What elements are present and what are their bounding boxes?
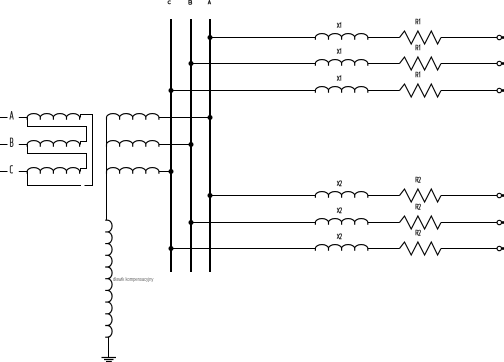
wire A to primary winding [19,117,27,119]
bus A label [208,0,211,4]
svg-text:dławik kompensacyjny: dławik kompensacyjny [113,276,154,283]
bus C label [168,1,171,4]
wire inductor to resistor (branch 1) [368,37,400,39]
wire C to primary winding [19,171,27,173]
junction secondary B on bus B [189,142,194,147]
wire resistor to output terminal (branch 6) [441,248,497,250]
output terminal (branch 4) [497,193,501,197]
wire reactor to ground [108,337,110,358]
terminal A lead wire [0,117,8,119]
junction branch 2 on bus B [189,61,194,66]
wire delta link C-A segment 1 (under winding C) [28,172,82,186]
wire stub to sheet edge (branch 6) [502,247,504,250]
label R1 (branch 1) [416,19,420,24]
output terminal (branch 2) [497,61,501,65]
label R1 (branch 2) [416,45,420,50]
transformer secondary winding B [107,141,159,147]
label R2 (branch 4) [416,177,421,182]
junction branch 5 on bus B [189,220,194,225]
label X1 (branch 1) [337,23,341,28]
bus B label [189,0,192,4]
terminal B lead wire [0,144,8,146]
wire stub to sheet edge (branch 3) [502,89,504,92]
phase label B [10,138,13,146]
transformer primary winding B (delta) [27,141,79,147]
wire secondary B to bus B [159,144,191,146]
wire inductor to resistor (branch 2) [368,63,400,65]
label X2 (branch 4) [337,181,342,186]
wire inductor to resistor (branch 6) [368,248,400,250]
terminal C lead wire [0,171,8,173]
phase label A [10,111,13,119]
neutral wire (secondary star point down to reactor) [106,118,108,221]
wire inductor to resistor (branch 4) [368,195,400,197]
label X2 (branch 5) [337,208,342,213]
junction branch 1 on bus A [208,35,213,40]
wire bus A to inductor X2 (branch 4) [210,195,315,197]
wire stub to sheet edge (branch 2) [502,62,504,65]
wire resistor to output terminal (branch 5) [441,222,497,224]
transformer secondary winding C [107,168,159,174]
junction branch 6 on bus C [169,246,174,251]
resistor R1 (branch 2) [400,57,442,70]
junction branch 3 on bus C [169,88,174,93]
wire stub to sheet edge (branch 5) [502,221,504,224]
output terminal (branch 6) [497,246,501,250]
bus A [209,19,211,272]
ground [102,358,117,362]
wire bus C to inductor X1 (branch 3) [171,90,315,92]
junction branch 4 on bus A [208,193,213,198]
wire stub to sheet edge (branch 4) [502,194,504,197]
label X2 (branch 6) [337,234,342,239]
transformer primary winding A (delta) [27,114,79,120]
resistor R2 (branch 4) [400,189,442,202]
label R1 (branch 3) [416,72,420,77]
wire resistor to output terminal (branch 1) [441,37,497,39]
label X1 (branch 2) [337,49,341,54]
wire bus B to inductor X1 (branch 2) [191,63,315,65]
label R2 (branch 6) [416,230,421,235]
inductor X1 (branch 1) [315,34,367,40]
output terminal (branch 5) [497,220,501,224]
phase label C [10,166,13,173]
resistor R1 (branch 1) [400,31,442,44]
output terminal (branch 3) [497,88,501,92]
wire resistor to output terminal (branch 4) [441,195,497,197]
resistor R1 (branch 3) [400,84,442,97]
inductor dlawik kompensacyjny (compensation reactor) [105,220,112,337]
inductor X2 (branch 4) [315,192,367,198]
wire bus B to inductor X2 (branch 5) [191,222,315,224]
wire bus A to inductor X1 (branch 1) [210,37,315,39]
label R2 (branch 5) [416,204,421,209]
wire delta link C-A segment 2 (up to winding A finish) [81,115,93,186]
wire B to primary winding [19,144,27,146]
transformer secondary winding A [107,114,159,120]
wire bus C to inductor X2 (branch 6) [171,248,315,250]
inductor X2 (branch 6) [315,245,367,251]
bus C [170,19,172,272]
wire secondary C to bus C [159,171,171,173]
wire resistor to output terminal (branch 2) [441,63,497,65]
resistor R2 (branch 5) [400,216,442,229]
resistor R2 (branch 6) [400,242,442,255]
wire delta link B-C (under winding B, down to winding C finish) [28,145,87,172]
inductor X2 (branch 5) [315,219,367,225]
wire resistor to output terminal (branch 3) [441,90,497,92]
junction secondary C on bus C [169,169,174,174]
output terminal (branch 1) [497,35,501,39]
bus B [190,19,192,272]
wire inductor to resistor (branch 3) [368,90,400,92]
label X1 (branch 3) [337,76,341,81]
wire secondary A to bus A [159,117,210,119]
inductor X1 (branch 3) [315,87,367,93]
inductor X1 (branch 2) [315,60,367,66]
junction secondary A on bus A [208,115,213,120]
wire stub to sheet edge (branch 1) [502,36,504,39]
wire inductor to resistor (branch 5) [368,222,400,224]
transformer primary winding C (delta) [27,168,79,174]
wire delta link A-B (under winding A, down to winding B finish) [28,118,87,145]
